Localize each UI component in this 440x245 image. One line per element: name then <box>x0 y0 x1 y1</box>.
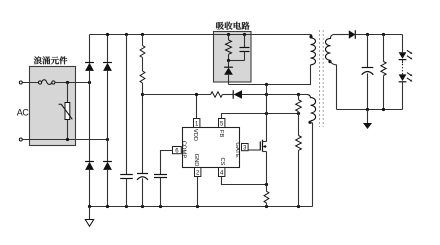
node primary phase dot <box>309 35 312 38</box>
node <box>382 108 385 111</box>
LED D9 <box>399 73 413 82</box>
surge element box <box>30 67 76 146</box>
wire to C2 <box>142 83 144 174</box>
svg-text:VDD: VDD <box>192 129 198 141</box>
svg-text:CS: CS <box>219 157 225 165</box>
wire COMP <box>161 151 173 175</box>
svg-text:AC: AC <box>17 108 30 118</box>
node FB mid <box>297 112 300 115</box>
node varistor top <box>66 81 69 84</box>
snubber box (absorption circuit) <box>214 32 252 83</box>
transformer T1 secondary winding <box>326 35 335 61</box>
LED continuation dots <box>402 64 404 73</box>
wire GND pin down <box>197 177 199 207</box>
wire RC bottom <box>229 60 245 62</box>
node <box>88 205 91 208</box>
diode D7 output rectifier <box>349 30 356 39</box>
resistor R7 sense <box>264 191 269 203</box>
node secondary phase dot <box>328 60 331 63</box>
wire <box>244 52 246 61</box>
node <box>297 205 300 208</box>
wire bridge upper <box>107 35 109 63</box>
resistor R4 <box>226 40 232 54</box>
wire <box>228 35 230 41</box>
resistor R5 <box>296 100 302 112</box>
wire bottom rail <box>90 206 313 208</box>
wire switch node <box>229 65 311 85</box>
capacitor C3 <box>154 175 167 178</box>
wire <box>222 94 233 96</box>
node FB top <box>297 93 300 96</box>
wire sec top <box>334 34 349 36</box>
capacitor C4 <box>240 48 250 52</box>
node <box>159 205 162 208</box>
resistor R1 <box>140 46 145 58</box>
svg-text:GND: GND <box>193 154 199 167</box>
node bridge right mid <box>106 138 109 141</box>
wire <box>244 35 246 48</box>
node drain <box>265 83 268 86</box>
LED D8 <box>399 50 413 59</box>
pin 6 <box>173 147 182 154</box>
wire LED top <box>402 35 404 53</box>
wire <box>402 73 404 74</box>
fuse F1 <box>38 80 55 85</box>
node aux phase dot <box>308 121 311 124</box>
wire C5 bottom lead <box>367 73 369 109</box>
wire <box>298 150 300 206</box>
wire LED bottom <box>402 82 404 110</box>
node bridge left mid <box>88 81 91 84</box>
diode D4 <box>103 162 112 170</box>
node <box>382 33 385 36</box>
wire bridge lower <box>107 170 109 207</box>
transformer core <box>320 30 324 127</box>
node <box>125 205 128 208</box>
AC terminal top <box>19 81 22 84</box>
label 浪涌元件 <box>34 56 68 64</box>
varistor RV1 <box>59 83 73 140</box>
resistor R8 <box>381 62 386 76</box>
transformer T1 primary winding <box>311 35 316 65</box>
node <box>265 205 268 208</box>
wire source <box>266 152 268 185</box>
capacitor C1 <box>120 175 133 179</box>
svg-text:COMP: COMP <box>181 141 187 159</box>
wire <box>266 185 268 192</box>
wire bridge upper <box>89 35 91 63</box>
wire cap C1 bottom lead <box>126 179 128 207</box>
wire <box>402 60 404 64</box>
wire VDD row left <box>143 94 211 96</box>
node <box>141 205 144 208</box>
node <box>265 112 268 115</box>
resistor R6 <box>296 136 302 151</box>
wire <box>266 203 268 207</box>
node <box>366 108 369 111</box>
wire AC neutral <box>22 139 107 141</box>
IC U1 controller body <box>183 128 240 168</box>
resistor R2 <box>140 71 145 83</box>
resistor R3 <box>211 92 223 97</box>
node varistor bottom <box>66 138 69 141</box>
pin 4 <box>219 168 225 177</box>
capacitor C5 output electrolytic <box>362 68 374 75</box>
node <box>106 33 109 36</box>
wire R8 top lead <box>383 35 385 62</box>
wire gate <box>248 149 260 151</box>
pin 2 <box>195 168 201 177</box>
svg-text:FB: FB <box>218 130 224 138</box>
wire sec bottom rail <box>337 109 403 111</box>
wire VDD row right <box>242 94 307 96</box>
pin 5 <box>219 119 225 128</box>
wire R8 bottom lead <box>383 76 385 110</box>
diode D1 <box>85 63 94 71</box>
node <box>196 205 199 208</box>
wire <box>142 58 144 72</box>
wire bridge middle <box>107 71 109 162</box>
wire secondary bottom <box>331 60 337 109</box>
diode D5 <box>233 90 242 99</box>
svg-text:GATE: GATE <box>234 142 240 157</box>
AC terminal bottom <box>19 138 22 141</box>
wire VDD pin up <box>196 95 198 119</box>
wire fuse to bridge <box>55 82 90 84</box>
wire drain <box>266 85 268 142</box>
node <box>125 33 128 36</box>
node <box>265 93 268 96</box>
wire <box>228 75 230 85</box>
wire <box>228 54 230 60</box>
wire sec top rail <box>355 34 402 36</box>
wire top rail <box>90 34 312 36</box>
wire startup lead <box>142 35 144 46</box>
ground secondary <box>363 110 372 130</box>
wire <box>298 112 300 136</box>
wire AC hot to fuse <box>22 82 38 84</box>
node CS <box>265 183 268 186</box>
ground primary <box>85 207 93 227</box>
diode D6 <box>224 67 233 75</box>
wire CS row <box>222 177 267 185</box>
node VDD pin <box>195 93 198 96</box>
capacitor C2 electrolytic <box>137 174 148 180</box>
wire C3 bottom lead <box>160 178 162 207</box>
transistor Q1 MOSFET <box>260 140 266 152</box>
wire cap C1 top lead <box>126 35 128 175</box>
wire <box>298 95 300 100</box>
node <box>243 33 246 36</box>
node <box>366 33 369 36</box>
diode D2 <box>103 63 112 71</box>
wire C2 bottom lead <box>142 178 144 206</box>
wire bridge middle <box>89 71 91 162</box>
wire C5 top lead <box>367 35 369 68</box>
diode D3 <box>85 162 94 170</box>
node <box>227 59 230 62</box>
label 吸收电路 <box>216 22 249 30</box>
pin 3 <box>242 144 249 151</box>
wire bridge lower <box>89 170 91 207</box>
wire aux bottom <box>311 121 313 207</box>
wire FB row <box>222 114 299 119</box>
node <box>227 33 230 36</box>
pin 1 <box>194 119 200 128</box>
node VDD <box>141 93 144 96</box>
node <box>106 205 109 208</box>
transformer T1 aux winding <box>307 95 316 121</box>
node <box>141 33 144 36</box>
wire <box>228 61 230 68</box>
